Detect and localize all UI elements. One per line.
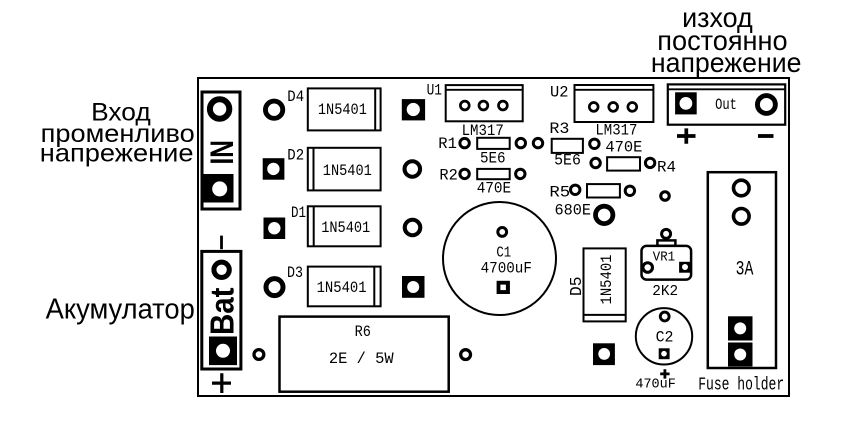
svg-text:680E: 680E <box>555 202 592 220</box>
pad (ring) fuse top 1 <box>734 180 750 196</box>
svg-text:1N5401: 1N5401 <box>323 162 372 180</box>
svg-text:D2: D2 <box>287 147 304 165</box>
svg-text:IN: IN <box>204 140 240 165</box>
pads U2 (3 rings) <box>589 103 636 112</box>
regulator U1 <box>446 85 523 121</box>
svg-text:470uF: 470uF <box>635 376 675 392</box>
svg-text:D1: D1 <box>291 204 306 222</box>
pad (ring) R1 left <box>460 138 469 147</box>
svg-text:U1: U1 <box>427 82 442 100</box>
pad IN bottom (square) <box>204 174 234 203</box>
pad (ring) left of D4 <box>265 101 282 118</box>
pad (square) D3 row right <box>402 276 425 298</box>
resistor R3 <box>552 139 583 153</box>
svg-text:D4: D4 <box>287 88 304 106</box>
diode D5 <box>584 248 626 321</box>
label: Вход променливо напрежение <box>40 99 195 168</box>
pad (square) left of D2 <box>263 158 285 180</box>
pad (square) D4 row right <box>402 99 425 120</box>
pad (ring) Out right <box>757 96 775 114</box>
pad (ring) C1 top <box>498 228 507 237</box>
svg-text:LM317: LM317 <box>595 122 637 140</box>
svg-text:напрежение: напрежение <box>40 140 194 168</box>
svg-text:5E6: 5E6 <box>554 152 581 170</box>
pad (ring) R5 right <box>625 186 634 195</box>
pad (square) below D5 <box>593 343 615 365</box>
pad (ring) R2 right <box>516 169 525 178</box>
svg-text:Out: Out <box>715 96 737 114</box>
pad (square) VR1 right <box>679 262 691 273</box>
pad (ring) R3 right <box>590 139 599 148</box>
pad Bat top (ring) <box>214 262 229 277</box>
svg-text:D3: D3 <box>287 264 303 282</box>
svg-text:U2: U2 <box>550 84 569 102</box>
svg-text:3A: 3A <box>736 259 754 282</box>
svg-text:1N5401: 1N5401 <box>318 101 367 119</box>
resistor R4 <box>607 157 640 170</box>
diode D1 <box>308 206 381 246</box>
svg-text:C2: C2 <box>656 328 674 346</box>
terminal block Out <box>668 84 785 124</box>
pad (ring) R4 right <box>645 158 654 167</box>
pad (ring) D1 row right <box>405 220 421 236</box>
pad (square) fuse bottom 2 <box>728 343 753 367</box>
terminal block IN <box>202 92 240 209</box>
pads U1 (3 rings) <box>460 101 507 110</box>
pad (ring) VR1 left <box>643 263 653 273</box>
pad IN top (ring) <box>210 99 229 118</box>
pad (square) C2 bottom <box>659 348 670 359</box>
diode D2 <box>308 148 381 191</box>
pad (ring) R5 left <box>571 185 580 194</box>
terminal block Bat <box>202 251 241 369</box>
svg-text:1N5401: 1N5401 <box>317 279 367 297</box>
svg-text:Fuse holder: Fuse holder <box>698 374 784 395</box>
pad (ring) small right of R4 <box>661 192 670 201</box>
pad (square) C1 bottom <box>497 281 510 294</box>
pad (ring) R1 right <box>516 138 525 147</box>
svg-text:1N5401: 1N5401 <box>321 219 370 237</box>
svg-text:R3: R3 <box>549 120 569 138</box>
pad (ring) fuse top 2 <box>734 209 750 225</box>
svg-text:2E / 5W: 2E / 5W <box>329 350 394 368</box>
svg-text:R5: R5 <box>549 184 570 202</box>
pad Bat bottom (square) <box>209 337 237 366</box>
pad (ring) R4 left <box>591 158 600 167</box>
svg-text:Акумулатор: Акумулатор <box>46 294 195 326</box>
svg-text:напрежение: напрежение <box>651 47 802 78</box>
pad (ring) left of R6 <box>254 350 264 360</box>
pad (square) Out left <box>675 92 697 114</box>
svg-text:VR1: VR1 <box>653 250 675 266</box>
svg-text:4700uF: 4700uF <box>481 259 532 277</box>
svg-text:2K2: 2K2 <box>652 283 678 300</box>
svg-text:Bat: Bat <box>203 288 240 336</box>
board outline <box>198 78 789 396</box>
pad (ring) C2 top <box>660 312 669 321</box>
resistor R2 <box>477 169 510 179</box>
svg-text:R2: R2 <box>439 166 457 184</box>
resistor R6 <box>280 317 449 392</box>
minus sign (Out) <box>758 134 774 138</box>
svg-text:R4: R4 <box>657 158 676 176</box>
pad (ring) D2 row right <box>405 161 421 177</box>
svg-text:5E6: 5E6 <box>480 150 506 168</box>
plus sign (Bat) <box>212 373 231 393</box>
pad (ring) node between R1 and R3 <box>533 138 542 147</box>
resistor R1 <box>477 138 510 149</box>
svg-text:470E: 470E <box>605 138 642 156</box>
diode D3 <box>308 267 381 307</box>
pad (ring) VR1 top <box>662 229 671 238</box>
svg-text:1N5401: 1N5401 <box>598 255 616 305</box>
fuse holder outline <box>708 172 776 368</box>
pad (ring) big below 680E <box>596 206 613 223</box>
label: изход постоянно напрежение <box>651 2 802 78</box>
pad (ring) right of R6 <box>461 350 471 360</box>
svg-text:R6: R6 <box>355 323 371 341</box>
resistor R5 <box>587 184 620 197</box>
pad (square) left of D1 <box>264 218 286 240</box>
svg-text:470E: 470E <box>477 180 511 198</box>
diode D4 <box>308 88 381 130</box>
capacitor C1 <box>443 202 556 315</box>
trimmer VR1 body <box>642 240 692 279</box>
capacitor C2 <box>636 308 692 364</box>
svg-text:R1: R1 <box>438 135 457 153</box>
plus sign (C2) <box>660 369 669 378</box>
minus sign (Bat) <box>220 236 223 250</box>
pad (ring) R2 left <box>460 169 469 178</box>
regulator U2 <box>575 85 654 122</box>
pad (ring) left of D3 <box>266 279 283 296</box>
plus sign (Out) <box>677 128 696 143</box>
pad (square) fuse bottom 1 <box>728 316 753 340</box>
